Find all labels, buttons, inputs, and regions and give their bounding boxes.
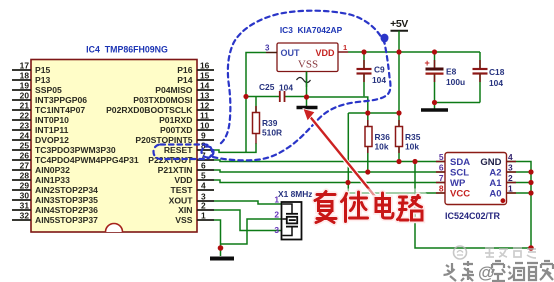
node IC4 left pin numbers 17-32 xyxy=(20,61,30,221)
wire IC4 left pin stubs xyxy=(12,70,31,220)
node IC4 right pin names xyxy=(106,65,193,225)
svg-text:TEST: TEST xyxy=(171,185,194,195)
svg-text:13: 13 xyxy=(200,91,210,101)
svg-text:XOUT: XOUT xyxy=(169,196,194,206)
svg-text:3: 3 xyxy=(274,225,279,235)
svg-text:P21XTIN: P21XTIN xyxy=(158,165,193,175)
svg-text:TC4PDO4PWM4PPG4P31: TC4PDO4PWM4PPG4P31 xyxy=(35,155,139,165)
svg-text:R36: R36 xyxy=(375,132,391,142)
svg-text:OUT: OUT xyxy=(281,48,301,58)
svg-text:17: 17 xyxy=(20,61,30,71)
capacitor C18 xyxy=(473,52,505,103)
svg-text:4: 4 xyxy=(201,181,206,191)
svg-text:A1: A1 xyxy=(489,178,502,189)
svg-text:AIN3STOP3P35: AIN3STOP3P35 xyxy=(35,195,98,205)
svg-text:P00TXD: P00TXD xyxy=(160,125,192,135)
svg-text:VSS: VSS xyxy=(175,215,192,225)
capacitor E8 electrolytic xyxy=(425,52,466,103)
svg-text:C9: C9 xyxy=(374,65,385,75)
svg-text:16: 16 xyxy=(200,61,210,71)
node annotation: blue dashed loop xyxy=(154,11,391,161)
svg-text:IC4 TMP86FH09NG: IC4 TMP86FH09NG xyxy=(86,45,168,55)
svg-text:22: 22 xyxy=(20,111,30,121)
node annotation: red text 复位电路 xyxy=(310,189,430,223)
svg-text:GND: GND xyxy=(480,157,501,168)
wire VSS node to C9 bottom xyxy=(307,97,368,127)
wire RESET row xyxy=(214,143,256,152)
svg-text:INT0P10: INT0P10 xyxy=(35,115,69,125)
ground IC4 VSS xyxy=(210,257,234,261)
svg-text:1: 1 xyxy=(343,43,347,52)
svg-text:12: 12 xyxy=(200,101,210,111)
svg-text:A2: A2 xyxy=(489,168,501,179)
svg-text:26: 26 xyxy=(20,151,30,161)
svg-text:INT1P11: INT1P11 xyxy=(35,125,69,135)
svg-text:P16: P16 xyxy=(177,65,193,75)
svg-text:P02RXD0BOOTSCLK: P02RXD0BOOTSCLK xyxy=(106,105,193,115)
svg-text:A0: A0 xyxy=(489,189,501,200)
svg-text:510R: 510R xyxy=(262,128,282,138)
svg-text:P01RXD: P01RXD xyxy=(159,115,192,125)
svg-text:INT3PPGP06: INT3PPGP06 xyxy=(35,95,87,105)
svg-text:RESET: RESET xyxy=(164,145,193,155)
svg-text:P14: P14 xyxy=(177,75,193,85)
svg-text:4: 4 xyxy=(508,152,513,162)
node component pin leads (dark red) xyxy=(256,60,516,193)
node IC4 right pin numbers 16-1 xyxy=(200,61,210,221)
svg-text:E8: E8 xyxy=(446,67,457,77)
wire SDA row xyxy=(214,160,445,162)
wire A2 A1 A0 stubs to bus xyxy=(507,172,532,193)
svg-text:VCC: VCC xyxy=(450,189,470,200)
svg-text:32: 32 xyxy=(20,211,30,221)
svg-text:AIN4STOP2P36: AIN4STOP2P36 xyxy=(35,205,98,215)
svg-text:5: 5 xyxy=(439,152,444,162)
svg-text:8: 8 xyxy=(439,184,444,194)
node IC4 left pin names xyxy=(35,65,139,225)
svg-text:P15: P15 xyxy=(35,65,51,75)
wire +5V drop to R35 xyxy=(398,52,400,127)
svg-text:C18: C18 xyxy=(489,67,505,77)
resistor R39 xyxy=(253,97,283,144)
wire SCL row xyxy=(214,170,445,172)
ground E8 xyxy=(421,103,448,111)
svg-text:TC3PDO3PWM3P30: TC3PDO3PWM3P30 xyxy=(35,145,116,155)
power +5V symbol xyxy=(390,18,408,52)
svg-text:7: 7 xyxy=(439,173,444,183)
svg-text:10k: 10k xyxy=(405,142,419,152)
svg-text:104: 104 xyxy=(372,75,386,85)
svg-text:SDA: SDA xyxy=(450,157,470,168)
svg-text:IC3 KIA7042AP: IC3 KIA7042AP xyxy=(280,25,343,35)
node crystal pin numbers xyxy=(274,195,279,236)
svg-text:TC1INT4P07: TC1INT4P07 xyxy=(35,105,85,115)
node IC524 left pin numbers xyxy=(439,152,444,194)
node IC3 pin 1 xyxy=(338,43,348,52)
wire E8/C18 bottom xyxy=(435,102,481,104)
svg-text:R39: R39 xyxy=(262,118,278,128)
resistor R36 xyxy=(365,127,390,173)
svg-text:2: 2 xyxy=(274,210,279,220)
svg-text:XIN: XIN xyxy=(178,205,192,215)
IC IC5 24C02/TR EEPROM body xyxy=(445,153,507,205)
svg-text:25: 25 xyxy=(20,141,30,151)
wire XIN row to crystal pin3 xyxy=(214,210,282,231)
svg-text:100u: 100u xyxy=(446,77,465,87)
svg-text:104: 104 xyxy=(489,78,503,88)
svg-text:5: 5 xyxy=(201,171,206,181)
svg-text:X1 8MHz: X1 8MHz xyxy=(278,189,312,199)
ground IC3 VSS xyxy=(297,106,318,110)
svg-text:11: 11 xyxy=(200,111,209,121)
wire GND loop around IC524 xyxy=(415,162,531,249)
svg-text:104: 104 xyxy=(279,83,293,93)
wire IC3 OUT to node A xyxy=(246,53,266,153)
svg-text:28: 28 xyxy=(20,171,30,181)
resistor R35 xyxy=(396,127,421,162)
wire XOUT row to crystal pin1 xyxy=(214,201,282,204)
svg-text:21: 21 xyxy=(20,101,30,111)
svg-text:14: 14 xyxy=(200,81,210,91)
svg-text:SCL: SCL xyxy=(450,168,469,179)
wire +5V rail xyxy=(348,51,480,53)
node IC524 right pin numbers xyxy=(508,152,513,194)
svg-text:29: 29 xyxy=(20,181,30,191)
svg-text:20: 20 xyxy=(20,91,30,101)
crystal X1 xyxy=(278,189,312,240)
wire C25 node row xyxy=(246,96,307,98)
svg-text:SSP05: SSP05 xyxy=(35,85,62,95)
svg-text:WP: WP xyxy=(450,178,466,189)
svg-text:9: 9 xyxy=(201,131,206,141)
svg-text:27: 27 xyxy=(20,161,30,171)
wire VCC feed xyxy=(348,113,445,193)
wire VSS pin to ground xyxy=(214,220,221,256)
svg-text:AIN2STOP2P34: AIN2STOP2P34 xyxy=(35,185,98,195)
svg-text:AIN0P32: AIN0P32 xyxy=(35,165,70,175)
svg-text:VDD: VDD xyxy=(174,175,192,185)
wire crystal pin2 to ground xyxy=(221,219,282,244)
capacitor C9 xyxy=(357,52,387,96)
svg-text:DVOP12: DVOP12 xyxy=(35,135,69,145)
svg-text:1: 1 xyxy=(201,211,206,221)
svg-text:P03TXD0MOSI: P03TXD0MOSI xyxy=(133,95,192,105)
svg-text:6: 6 xyxy=(439,163,444,173)
wire WP row xyxy=(214,180,445,183)
svg-text:15: 15 xyxy=(200,71,210,81)
node IC524 corner dot xyxy=(501,198,506,203)
svg-text:19: 19 xyxy=(20,81,30,91)
svg-text:+: + xyxy=(425,58,430,68)
svg-text:+5V: +5V xyxy=(390,18,408,30)
node watermark: 头条@空调百家 xyxy=(444,261,475,281)
svg-text:18: 18 xyxy=(20,71,30,81)
node watermark: logo and 制冷百家 xyxy=(454,246,537,259)
IC IC4 TMP86FH09NG microcontroller body xyxy=(31,60,197,233)
svg-text:30: 30 xyxy=(20,191,30,201)
svg-text:VDD: VDD xyxy=(315,48,335,58)
svg-text:C25: C25 xyxy=(259,82,275,92)
svg-text:6: 6 xyxy=(201,161,206,171)
svg-text:10: 10 xyxy=(200,121,210,131)
svg-text:R35: R35 xyxy=(405,132,421,142)
svg-text:P04MISO: P04MISO xyxy=(155,85,193,95)
svg-text:10k: 10k xyxy=(375,142,389,152)
svg-text:2: 2 xyxy=(508,173,513,183)
svg-text:1: 1 xyxy=(274,195,279,205)
IC IC3 KIA7042AP reset detector body xyxy=(277,43,338,72)
capacitor C25 xyxy=(259,82,293,102)
node IC3 pin 3 xyxy=(265,44,277,53)
svg-text:VSS: VSS xyxy=(298,59,318,71)
svg-text:24: 24 xyxy=(20,131,30,141)
svg-text:P13: P13 xyxy=(35,75,51,85)
svg-text:AIN1P33: AIN1P33 xyxy=(35,175,70,185)
svg-text:3: 3 xyxy=(508,163,513,173)
wire pullup rail R36 R35 tops xyxy=(348,112,399,114)
svg-text:31: 31 xyxy=(20,201,30,211)
svg-text:1: 1 xyxy=(508,184,513,194)
svg-text:AIN5STOP3P37: AIN5STOP3P37 xyxy=(35,215,98,225)
node IC3 VSS pin squiggle xyxy=(306,72,308,88)
svg-text:IC524C02/TR: IC524C02/TR xyxy=(445,211,501,221)
node annotation: red arrow to ground xyxy=(303,109,382,206)
wire IC3 VSS down xyxy=(306,72,308,107)
node annotation: blue pen blob xyxy=(381,34,389,43)
svg-text:23: 23 xyxy=(20,121,30,131)
svg-text:2: 2 xyxy=(201,201,206,211)
wire IC4 right pin stubs xyxy=(197,70,214,220)
svg-text:3: 3 xyxy=(265,44,270,53)
